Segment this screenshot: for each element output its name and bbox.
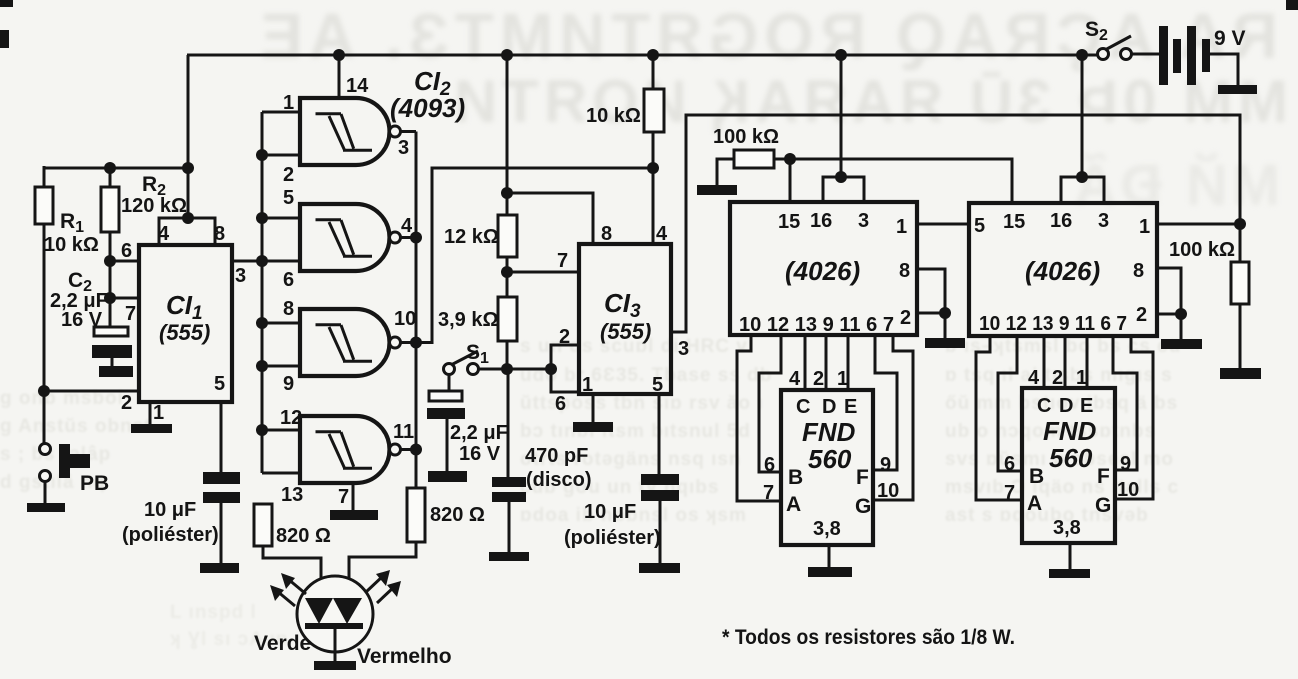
svg-text:FND: FND <box>802 417 856 447</box>
wire: CI4 pin 7 to FND1 G <box>873 335 913 500</box>
wire: 100k to CI4 pin 15 and CI5 pin 15 <box>774 159 1012 203</box>
pushbutton PB contact bottom <box>40 471 51 482</box>
svg-text:5: 5 <box>652 374 663 396</box>
ground: CI5 pins 8-2 <box>1161 339 1202 349</box>
svg-text:16 V: 16 V <box>459 443 501 465</box>
svg-text:8: 8 <box>1133 260 1144 282</box>
svg-text:(poliéster): (poliéster) <box>122 524 219 546</box>
wire: CI4 pin 1 to CI5 pin 5 <box>917 223 969 226</box>
wire: CI3 pin 1 to ground <box>592 394 595 422</box>
svg-text:D: D <box>822 396 836 418</box>
wire: ground to 100k left <box>717 159 734 185</box>
svg-text:7: 7 <box>1004 482 1015 504</box>
wire: S2 to battery <box>1131 53 1159 56</box>
wire: CI1 pin 6 <box>110 260 139 263</box>
svg-text:5: 5 <box>283 187 294 209</box>
wire: LED to ground <box>334 629 337 661</box>
svg-text:16: 16 <box>1050 210 1072 232</box>
svg-text:470 pF: 470 pF <box>525 445 588 467</box>
svg-text:8: 8 <box>601 223 612 245</box>
svg-text:1: 1 <box>1076 367 1087 389</box>
wire: 10k branch from rail <box>652 55 655 89</box>
svg-text:6: 6 <box>283 269 294 291</box>
wire: 10uF to ground <box>220 503 223 563</box>
gate U1C nand 3 body <box>262 309 416 376</box>
capacitor 2.2uF positive plate <box>429 391 462 401</box>
wire: CI3 pins 2-6 bracket <box>551 345 579 392</box>
svg-text:3: 3 <box>858 210 869 232</box>
svg-text:9: 9 <box>880 454 891 476</box>
svg-text:2: 2 <box>559 326 570 348</box>
svg-text:D: D <box>1059 395 1073 417</box>
wire: CI5 pin 10 to FND2 A <box>976 336 1022 500</box>
resistor 100k left body <box>734 150 774 168</box>
svg-text:B: B <box>1029 465 1044 488</box>
wire: CI4 pin 15 drop <box>789 159 792 202</box>
wire: 12k branch from rail <box>506 55 509 215</box>
svg-text:C: C <box>1037 395 1051 417</box>
svg-text:ɒ ıs–ʞtsmsl bo bs cs cü: ɒ ıs–ʞtsmsl bo bs cs cü <box>945 336 1181 357</box>
svg-text:A: A <box>1027 492 1042 515</box>
svg-text:L ınspd l: L ınspd l <box>170 602 257 623</box>
wire: CI5 pin 13 to FND2 C <box>1043 336 1046 388</box>
wire: CI3 pin 3 output up to clock rail <box>671 115 1240 332</box>
battery cell plate short 2 <box>1202 39 1210 72</box>
gate U1D nand 4 body <box>262 416 416 483</box>
svg-text:4: 4 <box>401 215 413 237</box>
display FND1 560 box <box>781 390 873 545</box>
gate U1B nand 2 body <box>262 204 416 271</box>
svg-text:B: B <box>788 466 803 489</box>
wire: S1 to junction <box>478 368 551 371</box>
page edge mark top-left <box>0 0 13 7</box>
svg-text:(4026): (4026) <box>785 256 860 286</box>
svg-text:2: 2 <box>1052 367 1063 389</box>
counter CI5 4026 box <box>969 203 1157 336</box>
wire: CI2 common output bus <box>415 132 418 489</box>
capacitor C2 negative plate <box>92 345 132 358</box>
node: junction S1 / 470pF / threshold <box>501 363 513 375</box>
wire: CI1 pin 7 <box>110 297 139 300</box>
svg-text:1: 1 <box>837 368 848 390</box>
wire: R1 bottom lead down to PB <box>43 224 46 443</box>
capacitor 470pF plate 1 <box>492 477 526 487</box>
svg-text:10 μF: 10 μF <box>144 499 196 521</box>
svg-text:10 12 13 9 11 6 7: 10 12 13 9 11 6 7 <box>739 314 894 336</box>
wire: CI5 supply drop from rail <box>1081 55 1084 177</box>
switch S2 contact right <box>1121 49 1132 60</box>
wire: CI1 pin 3 output <box>232 260 262 263</box>
svg-text:E: E <box>1080 395 1093 417</box>
wire: CI4 pin 6 to FND1 F <box>873 335 897 470</box>
wire: 10uF to ground <box>659 501 662 563</box>
svg-text:100 kΩ: 100 kΩ <box>1169 239 1235 261</box>
ground: below 470pF <box>489 552 529 561</box>
svg-text:12: 12 <box>280 407 302 429</box>
svg-text:(poliéster): (poliéster) <box>564 527 661 549</box>
svg-text:15: 15 <box>778 211 800 233</box>
wire: horizontal feed to R1 and R2 <box>43 167 188 170</box>
svg-text:(555): (555) <box>600 319 651 344</box>
wire: CI5 pin 9 to FND2 D <box>1064 336 1067 388</box>
node: output bus junction pin 4 <box>410 232 422 244</box>
svg-text:1: 1 <box>283 92 294 114</box>
wire: battery negative to ground <box>1210 54 1238 85</box>
node: junction CI3 pin 7 <box>501 266 513 278</box>
svg-text:G: G <box>1095 494 1111 517</box>
wire: right 820 to LED <box>349 542 416 600</box>
svg-text:8: 8 <box>899 260 910 282</box>
wire: PB to ground <box>44 481 47 503</box>
node: junction left drop / R1-R2 feed <box>182 162 194 174</box>
node: tie junction pin9 <box>256 360 268 372</box>
wire: CI5 pin 8 <box>1157 268 1181 314</box>
svg-text:udo br 6Ɛ35. Tbase ss db: udo br 6Ɛ35. Tbase ss db <box>520 365 772 386</box>
wire: CI5 pin 2 <box>1157 313 1181 316</box>
ground: 100k left <box>697 185 737 195</box>
svg-text:12 kΩ: 12 kΩ <box>444 226 499 248</box>
svg-text:10: 10 <box>394 308 416 330</box>
node: junction pin1 / 100k right <box>1234 218 1246 230</box>
node: tie junction pin12 <box>256 424 268 436</box>
ground: battery <box>1218 85 1257 94</box>
svg-text:560: 560 <box>808 444 852 474</box>
counter CI4 4026 box <box>730 202 917 335</box>
capacitor 10uF poliester plate 1 <box>203 472 240 484</box>
svg-text:2: 2 <box>813 368 824 390</box>
svg-text:14: 14 <box>346 75 369 97</box>
svg-text:3,9 kΩ: 3,9 kΩ <box>438 309 499 331</box>
svg-text:2: 2 <box>1136 304 1147 326</box>
wire: CI2 pin 14 from rail <box>338 55 341 96</box>
wire: left 820 to LED <box>263 546 321 600</box>
svg-text:4: 4 <box>158 223 170 245</box>
svg-text:Vermelho: Vermelho <box>357 645 452 668</box>
resistor 10k body <box>644 89 664 132</box>
svg-text:9 V: 9 V <box>1214 27 1246 50</box>
wire: CI5 pin 12 to FND2 B <box>998 336 1022 471</box>
svg-text:3: 3 <box>678 338 689 360</box>
svg-text:9: 9 <box>283 373 294 395</box>
svg-text:* Todos os resistores são 1/8: * Todos os resistores são 1/8 W. <box>722 626 1015 649</box>
node: rail junction at CI2 pin14 <box>333 49 345 61</box>
svg-text:9: 9 <box>1120 453 1131 475</box>
resistor R1 10k body <box>35 187 53 224</box>
svg-text:820 Ω: 820 Ω <box>430 504 485 526</box>
node: rail junction at 12k branch <box>501 49 513 61</box>
svg-text:g Anstŭs obnst: g Anstŭs obnst <box>0 416 152 437</box>
svg-text:560: 560 <box>1049 443 1093 473</box>
svg-text:1: 1 <box>1139 216 1150 238</box>
svg-text:3,8: 3,8 <box>1053 517 1081 539</box>
node: junction R1 / CI1 pin2 <box>38 385 50 397</box>
wire: to ground CI5 <box>1180 314 1183 339</box>
switch S2 contact left <box>1098 49 1109 60</box>
node: junction bracket CI4 <box>835 171 847 183</box>
LED light arrow 3 <box>366 570 390 592</box>
wire: CI4 pin 10 to FND1 A <box>737 335 781 501</box>
gate U1A nand 1 body <box>262 98 416 165</box>
svg-text:Verde: Verde <box>254 632 311 655</box>
capacitor 10uF poliester plate 1 <box>641 474 679 485</box>
wire: CI4 pin 2 <box>917 312 945 315</box>
wire: CI4 pin 13 to FND1 C <box>804 335 807 390</box>
wire: CI5 pin 11 to FND2 E <box>1086 336 1089 388</box>
wire: CI2 pin 7 to ground <box>352 483 355 510</box>
ground: below PB <box>27 503 65 512</box>
wire: R2 bottom lead to pin6/pin7/C2 <box>109 232 112 327</box>
wire: CI3 pin 8 link <box>507 193 593 244</box>
svg-text:11: 11 <box>393 421 414 443</box>
battery 9V cell plate long 1 <box>1159 26 1168 85</box>
svg-text:8: 8 <box>214 223 225 245</box>
svg-text:F: F <box>856 466 869 489</box>
wire: CI4 supply drop from rail <box>840 55 843 177</box>
node: rail junction at 10k branch <box>647 49 659 61</box>
ground: below LED <box>314 661 356 670</box>
resistor 820 ohm right (Vermelho) <box>407 488 425 542</box>
display FND2 560 box <box>1022 388 1115 543</box>
ground: below 10uF CI3 <box>639 563 680 573</box>
svg-text:7: 7 <box>338 486 349 508</box>
capacitor 10uF poliester plate 2 <box>641 490 679 501</box>
svg-text:100 kΩ: 100 kΩ <box>713 126 779 148</box>
wire: down to 100k right <box>1239 224 1242 262</box>
wire: CI3 pin 5 to 10uF <box>658 394 661 474</box>
wire: 100k right to ground <box>1239 304 1242 368</box>
svg-text:F: F <box>1097 465 1110 488</box>
svg-text:3,8: 3,8 <box>813 518 841 540</box>
op-amp/timer CI1 555 box <box>139 245 232 402</box>
svg-text:10 kΩ: 10 kΩ <box>44 234 99 256</box>
svg-text:(disco): (disco) <box>526 469 592 491</box>
svg-text:4: 4 <box>1028 367 1040 389</box>
node: output bus junction pin 10 <box>410 337 422 349</box>
svg-text:FND: FND <box>1043 416 1097 446</box>
node: junction pins 2-6 bracket <box>545 363 557 375</box>
LED green diode triangle <box>305 598 333 624</box>
svg-text:13: 13 <box>281 484 303 506</box>
svg-text:15: 15 <box>1003 211 1025 233</box>
svg-text:6: 6 <box>1004 453 1015 475</box>
wire: C2 to ground <box>111 358 114 366</box>
ground: CI2 pin 7 <box>330 510 378 520</box>
ground: CI4 pins 8-2 <box>925 338 965 348</box>
ground: CI1 pin 1 <box>131 424 172 433</box>
svg-text:6: 6 <box>764 454 775 476</box>
wire: CI5 pin 7 to FND2 G <box>1115 336 1153 499</box>
LED light arrow 1 <box>281 573 306 594</box>
wire: R1 top lead <box>43 166 46 187</box>
wire: 2.2uF to ground <box>446 419 449 471</box>
wire: FND2 to ground <box>1069 543 1072 569</box>
svg-text:10: 10 <box>877 480 899 502</box>
wire: CI5 pin 6 to FND2 F <box>1113 336 1137 470</box>
LED red diode triangle <box>333 598 362 624</box>
svg-text:3: 3 <box>398 137 409 159</box>
svg-text:1: 1 <box>153 402 164 424</box>
svg-text:bɔ tınɒl ltsm bıtsnul 5d: bɔ tınɒl ltsm bıtsnul 5d <box>520 421 751 442</box>
wire: CI1 pin 1 to ground <box>149 402 152 424</box>
svg-text:6: 6 <box>555 393 566 415</box>
ground: below 10uF <box>200 563 239 573</box>
wire: 470pF to ground <box>508 502 511 552</box>
resistor 12k body <box>498 215 517 257</box>
LED cathode bar <box>305 623 363 629</box>
wire: 10k feedback link <box>416 168 653 343</box>
svg-text:4: 4 <box>789 368 801 390</box>
ground: below C2 <box>99 366 133 377</box>
node: junction CI1 pin 7 / C2 <box>104 292 116 304</box>
switch S1 lever <box>451 351 478 365</box>
svg-text:E: E <box>844 396 857 418</box>
svg-text:3: 3 <box>235 265 246 287</box>
svg-text:1: 1 <box>896 216 907 238</box>
wire: 10k bottom to CI3 pin 4 <box>652 132 655 244</box>
wire: +9V top rail <box>187 54 1097 57</box>
wire: CI1 pin 5 down to 10uF <box>220 402 223 472</box>
node: output bus junction pin 11 <box>410 444 422 456</box>
node: junction pin8/pin2 <box>939 307 951 319</box>
node: junction 12k top / CI3 pin 8 <box>501 187 513 199</box>
wire: CI4 pin 12 to FND1 B <box>759 335 781 472</box>
svg-text:7: 7 <box>763 482 774 504</box>
wire: CI4 pin 11 to FND1 E <box>847 335 850 390</box>
svg-text:2: 2 <box>121 392 132 414</box>
wire: 470pF branch <box>507 369 510 477</box>
node: junction at 10k bottom <box>647 162 659 174</box>
LED light arrow 2 <box>270 585 295 606</box>
node: tie junction pin8 <box>256 317 268 329</box>
wire: CI5 pin 1 <box>1157 223 1240 226</box>
svg-text:A: A <box>786 493 801 516</box>
ground: FND1 <box>808 567 852 577</box>
switch S1 contact right <box>468 364 479 375</box>
wire: CI4 pin 8 <box>917 269 945 313</box>
svg-text:2,2 μF: 2,2 μF <box>450 422 508 444</box>
node: junction pin8/pin2 CI5 <box>1175 308 1187 320</box>
wire: R2 top lead <box>109 168 112 187</box>
svg-text:5: 5 <box>974 215 985 237</box>
ground: 100k right <box>1220 368 1261 379</box>
timer CI3 555 box <box>579 244 671 394</box>
ground: FND2 <box>1049 569 1090 578</box>
svg-text:820 Ω: 820 Ω <box>276 525 331 547</box>
resistor 820 ohm left (Verde) <box>254 504 272 546</box>
svg-text:s ; bs fəlâp: s ; bs fəlâp <box>0 444 111 465</box>
wire: 12k to 3.9k <box>506 257 509 297</box>
wire: CI2 input tie line <box>261 112 264 473</box>
svg-text:C: C <box>796 396 810 418</box>
capacitor 10uF poliester plate 2 <box>203 492 240 503</box>
svg-text:6: 6 <box>121 240 132 262</box>
wire: CI1 pin 2 <box>44 390 139 393</box>
wire: CI3 pin 7 <box>507 271 579 274</box>
ground: CI3 pin 1 <box>573 422 613 432</box>
wire: CI1 pins 4-8 bracket <box>159 218 215 245</box>
LED light arrow 4 <box>377 581 401 603</box>
page edge mark left <box>0 30 9 48</box>
wire: 3.9k to S1 node <box>506 341 509 369</box>
capacitor 470pF plate 2 <box>492 492 526 502</box>
node: tie junction pin2 <box>256 149 268 161</box>
ground: below 2.2uF <box>428 471 467 482</box>
LED bicolor body <box>297 576 373 652</box>
resistor 3.9k body <box>498 297 517 341</box>
wire: rail left drop to CI1 <box>187 55 190 218</box>
node: junction at R2 top <box>104 162 116 174</box>
battery cell plate long 2 <box>1187 26 1196 85</box>
wire: CI4 pins 16-3 bracket <box>823 177 864 202</box>
svg-text:120 kΩ: 120 kΩ <box>121 195 187 217</box>
battery cell plate short 1 <box>1173 39 1181 73</box>
node: junction bracket CI5 <box>1076 171 1088 183</box>
svg-text:(555): (555) <box>159 320 210 345</box>
svg-text:(4093): (4093) <box>390 93 465 123</box>
page edge mark top-right <box>1286 0 1298 10</box>
svg-text:(4026): (4026) <box>1025 256 1100 286</box>
svg-text:10 12 13 9 11 6 7: 10 12 13 9 11 6 7 <box>979 313 1127 335</box>
wire: S1 left contact to 2.2uF <box>448 374 451 391</box>
svg-text:8: 8 <box>283 298 294 320</box>
svg-text:RA AÇRAQ ROGЯTИMTЗ. AE: RA AÇRAQ ROGЯTИMTЗ. AE <box>254 0 1278 72</box>
svg-text:G: G <box>855 495 871 518</box>
wire: CI5 pins 16-3 bracket <box>1061 177 1104 203</box>
svg-text:5: 5 <box>214 373 225 395</box>
resistor 100k right body <box>1231 262 1249 304</box>
svg-text:7: 7 <box>125 303 136 325</box>
wire: CI4 pin 9 to FND1 D <box>825 335 828 390</box>
wire: to ground CI4 <box>944 313 947 338</box>
svg-text:2: 2 <box>283 164 294 186</box>
node: junction R2 / CI1 pin 6 <box>104 255 116 267</box>
node: rail junction at CI4 bracket <box>835 49 847 61</box>
svg-text:MЙ ĐÃ: MЙ ĐÃ <box>1070 153 1280 218</box>
svg-text:4: 4 <box>656 223 668 245</box>
node: rail junction at S2 <box>1076 49 1088 61</box>
wire: FND1 to ground <box>828 545 831 567</box>
node: tie junction pin6 <box>256 255 268 267</box>
svg-text:10 kΩ: 10 kΩ <box>586 105 641 127</box>
switch S1 contact left <box>444 364 455 375</box>
capacitor 2.2uF negative plate <box>427 408 465 419</box>
svg-text:msvıb Ɔ ıqäo ns ıtalls c: msvıb Ɔ ıqäo ns ıtalls c <box>945 477 1179 498</box>
svg-text:16: 16 <box>810 210 832 232</box>
pushbutton PB contact top <box>40 444 51 455</box>
svg-text:7: 7 <box>557 250 568 272</box>
resistor R2 120k body <box>101 187 119 232</box>
svg-text:2: 2 <box>900 307 911 329</box>
svg-text:3: 3 <box>1098 210 1109 232</box>
svg-text:1: 1 <box>582 374 593 396</box>
capacitor C2 positive plate <box>94 327 128 336</box>
switch S2 lever <box>1105 36 1131 50</box>
svg-text:ast s ɒqoubo tnsvəb: ast s ɒqoubo tnsvəb <box>945 505 1149 526</box>
node: tie junction pin5 <box>256 212 268 224</box>
svg-text:10 μF: 10 μF <box>584 501 636 523</box>
node: junction 100k / pin15 <box>784 153 796 165</box>
pushbutton PB actuator <box>59 444 70 478</box>
wire: drop to CI1 supply bracket <box>182 212 194 224</box>
svg-text:10: 10 <box>1117 479 1139 501</box>
svg-text:PB: PB <box>80 472 109 495</box>
